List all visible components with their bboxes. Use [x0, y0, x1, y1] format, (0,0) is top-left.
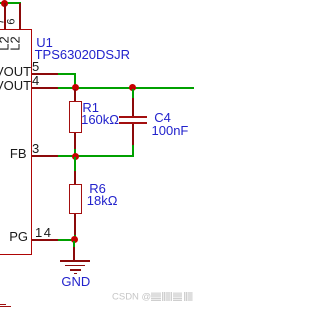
wire R1 top lead	[74, 89, 76, 102]
watermark	[112, 292, 193, 302]
designator C4	[154, 111, 171, 124]
pin number 4	[32, 74, 39, 87]
junction node at pin 7 top	[1, 0, 8, 7]
junction node FB	[72, 153, 79, 160]
pin number 5	[32, 60, 39, 73]
pin 3 (FB) stub	[32, 155, 59, 157]
value 160kΩ	[81, 113, 119, 126]
wire R6 bottom lead maroon	[74, 214, 76, 235]
pin 5 (VOUT) stub	[32, 73, 59, 75]
pin name L2 of pin 7 (rotated)	[0, 30, 10, 56]
wire pin5 jog horizontal	[58, 73, 76, 75]
wire pin5 jog vertical	[74, 73, 76, 88]
partial ground symbol bottom-left bar b	[0, 306, 11, 308]
pin 6 (L2) vertical stub	[19, 3, 21, 30]
IC U1 body outline	[0, 29, 32, 255]
wire R6 top lead maroon	[74, 171, 76, 186]
junction node VOUT/C4	[129, 84, 136, 91]
pin number 14	[35, 226, 52, 239]
junction node VOUT/R1	[72, 84, 79, 91]
pin 7 (L2) vertical stub	[4, 3, 6, 30]
ground symbol bar 2	[65, 265, 86, 267]
net label GND	[61, 275, 90, 288]
resistor R1 body	[69, 101, 82, 134]
partial ground symbol bottom-left bar a	[0, 304, 6, 305]
wire R1 bottom lead green	[74, 149, 76, 157]
wire R1 bottom lead maroon	[74, 133, 76, 149]
wire PG net horizontal	[58, 239, 75, 241]
designator R1	[82, 101, 99, 114]
pin 4 (VOUT) stub	[32, 87, 59, 89]
ground symbol bar 1	[60, 260, 90, 262]
capacitor C4 bottom plate	[119, 122, 147, 124]
pin name FB	[0, 147, 27, 160]
value TPS63020DSJR	[35, 48, 130, 61]
value 18kΩ	[87, 194, 118, 207]
pin 14 (PG) stub	[32, 239, 59, 241]
wire C4 top lead maroon	[132, 98, 134, 117]
pin number 3	[32, 142, 39, 155]
capacitor C4 top plate	[119, 116, 147, 118]
ground symbol bar 3	[70, 269, 81, 271]
designator R6	[89, 182, 106, 195]
pin name PG	[0, 230, 28, 243]
wire GND stem maroon	[73, 247, 75, 261]
wire GND stem green	[73, 241, 75, 248]
wire FB net horizontal	[58, 155, 134, 157]
wire VOUT net horizontal	[58, 87, 194, 89]
wire R6 top lead green	[74, 157, 76, 171]
resistor R6 body	[69, 184, 82, 214]
pin name L2 of pin 6 (rotated)	[8, 30, 21, 56]
pin number 7 (rotated)	[0, 12, 6, 32]
wire C4 top lead green	[132, 89, 134, 99]
pin name VOUT (pin 5)	[0, 65, 30, 78]
wire C4 bottom lead maroon	[132, 124, 134, 145]
ground symbol bar 4	[74, 273, 77, 275]
designator U1	[36, 36, 53, 49]
value 100nF	[152, 124, 189, 137]
wire C4 bottom lead green vertical	[132, 145, 134, 158]
junction node PG/R6/GND	[71, 236, 78, 243]
pin number 6 (rotated)	[7, 12, 18, 32]
wire VIN net (top horizontal)	[0, 2, 21, 4]
wire R6 bottom lead green	[74, 235, 76, 240]
pin name VOUT (pin 4)	[0, 79, 30, 92]
